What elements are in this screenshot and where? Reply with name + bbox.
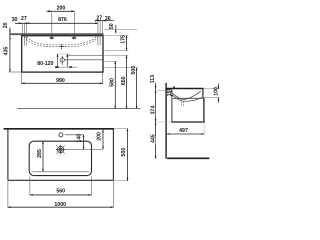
- svg-text:27: 27: [21, 16, 27, 22]
- siphon dashes: [181, 102, 183, 107]
- body: [7, 129, 9, 180]
- right 100 dim: [217, 84, 219, 89]
- cabinet top: [172, 97, 204, 99]
- svg-text:30: 30: [105, 16, 111, 22]
- cabinet left: [171, 98, 173, 122]
- basin front: [202, 89, 204, 98]
- basin top: [165, 88, 203, 90]
- left dims 113 / 374 / 445: [155, 83, 157, 91]
- svg-text:1000: 1000: [54, 202, 66, 208]
- svg-text:140: 140: [77, 134, 83, 143]
- wall: [165, 83, 167, 159]
- svg-text:650: 650: [121, 76, 127, 85]
- 500 plan right dim: [114, 180, 128, 182]
- svg-text:20: 20: [3, 22, 9, 28]
- svg-text:200: 200: [97, 132, 103, 141]
- ext lines down from 200 dim to tap marks: [51, 12, 53, 35]
- slab: [4, 128, 115, 130]
- bowl: [29, 141, 91, 175]
- svg-text:580: 580: [109, 78, 115, 87]
- svg-text:500: 500: [121, 148, 127, 157]
- tap hole marks (diamonds under slab): [49, 36, 77, 39]
- svg-text:374: 374: [150, 106, 156, 115]
- slab gray band: [10, 33, 104, 35]
- svg-text:500: 500: [131, 66, 137, 75]
- svg-text:27: 27: [96, 15, 102, 21]
- bowl hidden outline (dashed, double): [24, 37, 98, 47]
- right small dims 50 / 175: [105, 23, 138, 50]
- svg-text:200: 200: [57, 6, 66, 12]
- svg-text:50: 50: [109, 23, 115, 29]
- 150 dim: [167, 88, 173, 98]
- svg-text:435: 435: [3, 47, 9, 56]
- faucet bump: [173, 86, 175, 88]
- 285 dim: [42, 141, 44, 171]
- svg-text:285: 285: [37, 149, 43, 158]
- 990 dim: [22, 73, 103, 84]
- 560 dim: [29, 177, 31, 196]
- faucet hole: [59, 133, 63, 137]
- floor: [167, 157, 209, 159]
- 1000 dim: [7, 181, 9, 208]
- svg-text:445: 445: [151, 134, 157, 143]
- svg-text:990: 990: [56, 78, 65, 84]
- svg-text:80-120: 80-120: [37, 61, 53, 67]
- svg-text:100: 100: [213, 87, 219, 96]
- ext lines: [21, 23, 23, 33]
- bowl profile curves: [167, 89, 201, 99]
- right ext lines: [204, 88, 220, 90]
- overflow cross: [61, 44, 63, 50]
- svg-text:560: 560: [56, 189, 65, 195]
- svg-text:175: 175: [120, 35, 126, 44]
- svg-text:876: 876: [58, 17, 67, 23]
- cabinet bottom: [172, 121, 205, 123]
- cabinet rect: [22, 36, 103, 72]
- 200 dim right: [102, 130, 104, 150]
- svg-text:113: 113: [150, 75, 156, 83]
- 497 dim: [203, 123, 205, 135]
- svg-text:30: 30: [12, 17, 18, 23]
- chain dim line A (right 27/30): [95, 19, 113, 21]
- 200 dim: [47, 10, 75, 12]
- 140 dim: [82, 135, 84, 150]
- drain symbol: [57, 146, 63, 152]
- chain dim line B (left + 876): [15, 22, 98, 24]
- svg-text:497: 497: [179, 128, 188, 134]
- cabinet front: [203, 98, 205, 123]
- left dims 20 / 435: [3, 22, 21, 72]
- leaders to the right: [67, 55, 102, 57]
- chain arrows left: [19, 22, 22, 24]
- top dimension lines: [12, 6, 114, 46]
- chain arrows right (line A): [95, 20, 98, 22]
- svg-text:150: 150: [167, 88, 173, 97]
- drain circle w/ vertical line: [60, 58, 64, 62]
- 80-120 range dim: two verticals with top arrows: [57, 53, 71, 55]
